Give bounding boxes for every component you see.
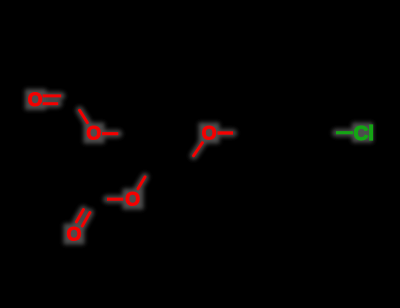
jpeg halo underlay: [25, 89, 373, 245]
wire: carbonyl C to ester O (red half): [80, 110, 88, 122]
wire: carbonyl C to ester O (red half, bottom acetate): [107, 198, 123, 201]
svg-text:Cl: Cl: [354, 122, 375, 145]
wire: ester O to CH2 (red half): [102, 132, 118, 135]
svg-text:O: O: [125, 190, 140, 211]
C=O double bond (bottom acetate): [76, 210, 90, 226]
wire: ester O to central CH (red half): [138, 177, 145, 189]
C=O double bond (top acetate): [43, 96, 62, 104]
svg-text:O: O: [28, 90, 43, 111]
svg-text:O: O: [67, 225, 82, 246]
wire: ether O to phenyl C1 (red half): [218, 131, 234, 134]
wire: phenyl C4 to Cl (green half): [336, 131, 353, 134]
svg-text:O: O: [86, 124, 101, 145]
wire: ether O to CH2 (red half): [194, 143, 203, 156]
svg-text:O: O: [202, 124, 217, 145]
